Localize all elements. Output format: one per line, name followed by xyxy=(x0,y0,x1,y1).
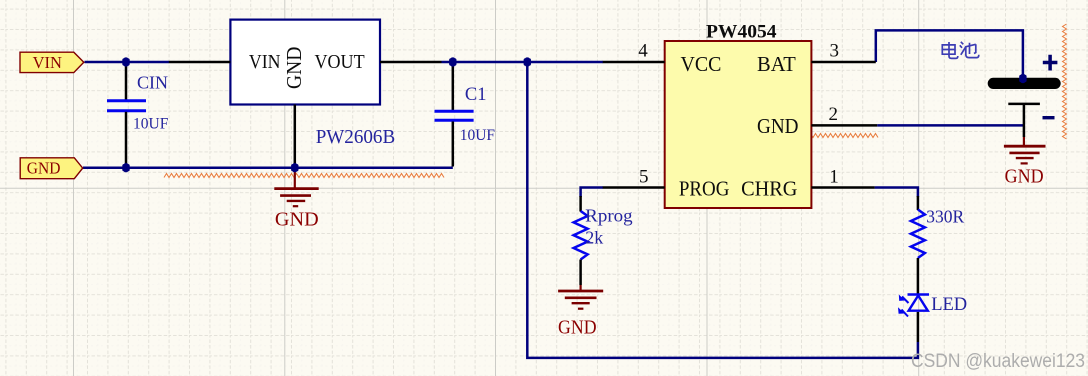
pin 5 PROG xyxy=(603,166,665,187)
svg-text:VOUT: VOUT xyxy=(315,51,366,73)
junction node GND-CIN xyxy=(122,164,129,171)
svg-text:VIN: VIN xyxy=(33,53,62,72)
svg-text:5: 5 xyxy=(639,166,649,187)
ic U1 PW2606B xyxy=(230,20,395,149)
svg-text:2k: 2k xyxy=(585,228,603,248)
junction node VIN-CIN xyxy=(122,58,129,65)
wire BAT pin to battery plus xyxy=(876,30,1023,79)
error squiggle under pin 2 wire xyxy=(808,134,878,138)
battery plus sign xyxy=(1043,55,1058,71)
pin VIN of U1 xyxy=(169,61,231,64)
junction node GND-U1 xyxy=(291,164,298,171)
svg-text:BAT: BAT xyxy=(757,52,796,76)
svg-text:GND: GND xyxy=(282,47,306,89)
port GND xyxy=(20,158,82,179)
svg-text:CSDN @kuakewei123: CSDN @kuakewei123 xyxy=(911,351,1085,372)
svg-text:C1: C1 xyxy=(465,85,487,105)
ground symbol U1 GND net xyxy=(274,168,318,231)
resistor Rprog 2k xyxy=(574,196,633,285)
ground symbol battery xyxy=(1004,137,1046,188)
wire VIN port to PW2606B xyxy=(85,61,170,64)
wire CHRG pin to 330R xyxy=(875,188,918,198)
wire long loop from VCC node down and right to LED xyxy=(527,62,918,358)
error squiggle under GND net wire xyxy=(164,174,444,178)
wire GND pin2 to battery minus xyxy=(877,124,1024,127)
pin 2 GND xyxy=(811,104,877,125)
svg-text:2: 2 xyxy=(829,104,839,125)
port VIN xyxy=(20,52,84,72)
capacitor C1 xyxy=(435,62,496,167)
pin 1 CHRG xyxy=(811,166,874,187)
svg-text:10UF: 10UF xyxy=(133,116,169,133)
svg-text:1: 1 xyxy=(829,166,839,187)
wire PROG pin to Rprog xyxy=(581,188,603,198)
svg-text:GND: GND xyxy=(757,114,799,138)
pin 3 BAT xyxy=(811,41,875,63)
svg-text:PW2606B: PW2606B xyxy=(316,127,396,148)
capacitor CIN xyxy=(107,62,169,168)
svg-text:10UF: 10UF xyxy=(460,127,496,144)
svg-text:LED: LED xyxy=(931,295,967,315)
battery 电池 xyxy=(988,78,1061,137)
svg-text:CHRG: CHRG xyxy=(741,177,797,201)
battery label 电池 xyxy=(942,42,979,59)
svg-text:Rprog: Rprog xyxy=(585,206,632,226)
ground symbol Rprog xyxy=(558,285,603,339)
svg-text:CIN: CIN xyxy=(137,73,168,93)
svg-text:GND: GND xyxy=(27,159,61,178)
svg-text:GND: GND xyxy=(558,318,597,339)
junction node VCC branch xyxy=(524,58,531,65)
pin GND of U1 xyxy=(294,105,297,167)
svg-text:PW4054: PW4054 xyxy=(706,23,777,43)
svg-text:4: 4 xyxy=(638,41,648,62)
wire GND net horizontal xyxy=(83,166,453,169)
svg-text:VCC: VCC xyxy=(681,52,722,76)
resistor R1 330R xyxy=(911,196,965,295)
svg-text:VIN: VIN xyxy=(249,51,281,73)
pin 4 VCC xyxy=(603,41,665,63)
svg-text:GND: GND xyxy=(1005,167,1044,188)
error squiggle vertical right of battery xyxy=(1063,24,1067,139)
ic U2 PW4054 xyxy=(665,23,812,209)
svg-text:3: 3 xyxy=(830,41,840,62)
svg-text:330R: 330R xyxy=(926,207,964,227)
wire VOUT to PW4054 VCC xyxy=(442,61,604,64)
led LED xyxy=(898,295,967,343)
svg-text:PROG: PROG xyxy=(679,177,730,201)
junction node VOUT-C1 xyxy=(449,58,456,65)
svg-text:GND: GND xyxy=(275,209,319,230)
pin VOUT of U1 xyxy=(380,61,442,64)
battery minus sign xyxy=(1043,116,1055,119)
junction node battery plus xyxy=(1019,75,1026,82)
